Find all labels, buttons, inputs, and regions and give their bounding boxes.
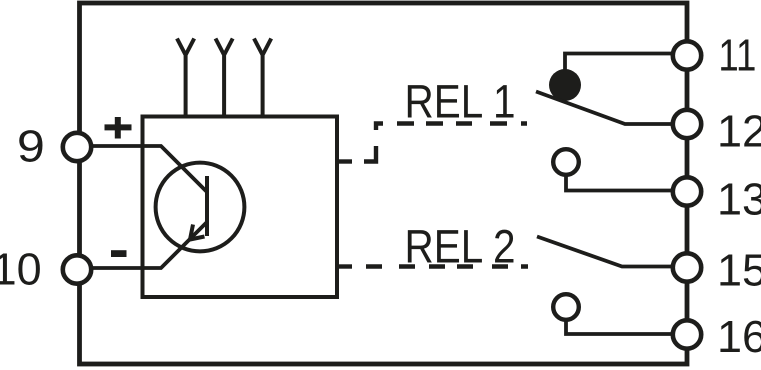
terminal 12 (673, 110, 701, 138)
REL1 NC contact circle (553, 149, 579, 175)
terminal 11 (673, 41, 701, 69)
plus polarity symbol (105, 117, 132, 139)
REL1 common contact dot (549, 69, 581, 101)
svg-text:REL 1: REL 1 (405, 74, 516, 127)
antenna 3 (254, 39, 271, 117)
enclosure border (80, 3, 688, 364)
REL1 NC wire to terminal 13 (566, 175, 673, 191)
svg-text:15: 15 (717, 244, 761, 295)
emitter arrowhead (190, 225, 205, 240)
svg-text:REL 2: REL 2 (405, 219, 516, 272)
REL2 control dashed link (336, 264, 528, 268)
terminal 9 (63, 133, 91, 161)
transistor Q1 base bar (205, 176, 209, 236)
minus polarity symbol (111, 250, 127, 257)
svg-text:16: 16 (717, 311, 761, 362)
terminal 15 (673, 253, 701, 281)
wire terminal 9 to collector (93, 146, 208, 192)
REL1 control dashed link (336, 124, 527, 162)
terminal 16 (673, 320, 701, 348)
svg-text:12: 12 (717, 105, 761, 156)
antenna 1 (177, 39, 194, 117)
antenna 2 (216, 39, 233, 117)
REL2 switch lever to terminal 15 (537, 237, 673, 267)
svg-text:13: 13 (717, 174, 761, 225)
REL1 switch lever to terminal 12 (536, 92, 673, 125)
REL1 common wire to terminal 11 (565, 54, 673, 71)
sensor box U1 (143, 117, 338, 298)
svg-text:11: 11 (718, 30, 756, 81)
REL2 NC contact circle (553, 294, 579, 320)
terminal 10 (63, 255, 91, 283)
svg-text:10: 10 (0, 244, 42, 295)
wire emitter to terminal 10 (93, 222, 208, 268)
terminal 13 (673, 177, 701, 205)
REL2 NC wire to terminal 16 (566, 320, 673, 334)
transistor Q1 circle (156, 163, 245, 252)
svg-text:9: 9 (17, 121, 45, 172)
